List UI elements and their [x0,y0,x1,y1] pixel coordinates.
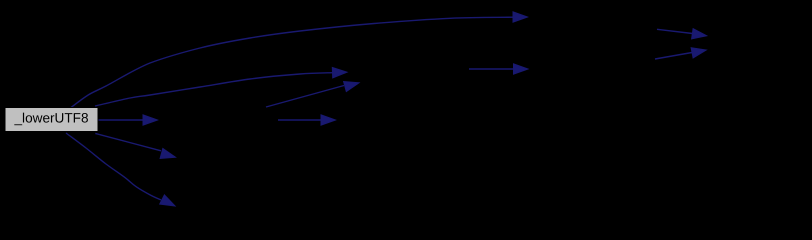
svg-text:_lowerUTF8: _lowerUTF8 [13,111,88,126]
edge second-column horizontal right [278,119,321,121]
arrowhead lower curve [160,195,175,206]
arrowhead down-right [160,148,175,158]
arrowhead of horizontal edge 1 [143,115,158,125]
arrowhead of up-right edge [344,82,359,92]
arrowhead of top curve [513,12,528,22]
arrowhead of horizontal edge 3 [514,64,529,74]
arrowhead of mid curve [332,68,347,78]
arrowhead upper right 2 [691,48,706,58]
edge _lowerUTF8 horizontal right [98,119,142,121]
edge from second-column node up-right [266,86,344,108]
edge _lowerUTF8 lower curve [66,133,161,200]
edge mid-column horizontal right [469,68,513,70]
edge _lowerUTF8 to mid node (gentle curve) [95,73,333,106]
edge upper right converging up [655,53,692,60]
edge _lowerUTF8 to top node (curve) [71,17,513,107]
arrowhead upper right 1 [692,29,707,39]
edge _lowerUTF8 down-right straight [95,133,161,150]
node _lowerUTF8 (grey box) [5,108,98,132]
edge upper right converging down [657,29,693,33]
arrowhead of horizontal edge 2 [321,115,336,125]
